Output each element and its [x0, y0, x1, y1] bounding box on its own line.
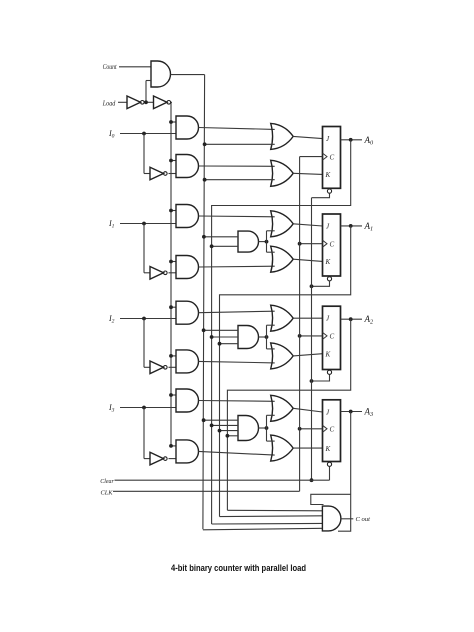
node I3 junction [142, 406, 146, 410]
wire A0 output [341, 139, 363, 141]
svg-text:K: K [325, 258, 331, 266]
clock wedge FF3 [323, 425, 328, 432]
wire J AND out to OR stage0 [199, 128, 275, 130]
wire OR out to K input FF1 [293, 259, 322, 261]
node bus tap stage2 [202, 328, 206, 332]
clear bubble FF2 [327, 370, 331, 374]
wire chain AND input stage3 [227, 435, 238, 437]
node clear riser tap FF1 [310, 284, 314, 288]
node bus tap stage2 [218, 342, 222, 346]
wire inverter I2 output [169, 366, 177, 368]
wire load tap to J AND stage3 [171, 394, 176, 396]
wire inverter I3 output [169, 458, 177, 460]
wire load tap to J AND stage2 [171, 306, 176, 308]
AND gate J load stage1 [176, 205, 199, 228]
AND gate J load stage3 [176, 389, 199, 412]
wire A2 output [341, 318, 363, 320]
wire chain AND input stage3 [220, 430, 239, 432]
wire Clear line [115, 479, 330, 481]
wire into inverter I0 [144, 173, 150, 175]
svg-text:4-bit binary counter with para: 4-bit binary counter with parallel load [171, 563, 306, 573]
node count bus tap J0 [203, 142, 207, 146]
node I2 junction [142, 317, 146, 321]
node chain split stage3 [265, 426, 269, 430]
wire inverter I0 output [169, 173, 177, 175]
inverter I2 [150, 361, 164, 374]
wire load tap to K AND stage1 [171, 261, 176, 263]
wire chain split vertical stage3 [266, 415, 268, 441]
wire into inverter I2 [144, 366, 150, 368]
wire chain AND input stage3 [212, 424, 238, 426]
inverter Load [127, 96, 141, 109]
svg-text:K: K [325, 445, 331, 453]
wire K AND out to OR stage3 [199, 451, 275, 455]
node clear riser joins clear line [310, 478, 314, 482]
node count bus tap K0 [203, 178, 207, 182]
wire J AND out to OR stage2 [199, 311, 275, 313]
inverter I0 [150, 167, 164, 180]
wire load tap to K AND stage2 [171, 355, 176, 357]
AND gate K load stage1 [176, 256, 199, 279]
wire into inverter I1 [144, 272, 150, 274]
wire chain split vertical stage2 [266, 325, 268, 349]
node bus tap stage3 [210, 424, 214, 428]
node clock riser tap FF2 [298, 334, 302, 338]
wire I0 down to inverter [143, 134, 145, 174]
node clear riser tap FF2 [310, 379, 314, 383]
inverter Load buffer [154, 96, 168, 109]
node load bus tap J0 [169, 120, 173, 124]
wire clock riser [299, 157, 301, 492]
svg-text:K: K [325, 351, 331, 359]
node A1 junction [349, 224, 353, 228]
node bus tap stage3 [226, 434, 230, 438]
wire clear bubble FF0 to clear riser [312, 193, 330, 197]
svg-text:C: C [330, 426, 335, 434]
node load bus tap J2 [169, 305, 173, 309]
AND gate count chain stage3 [238, 416, 259, 441]
wire I2 input line [120, 318, 176, 320]
wire chain to OR J stage3 [267, 414, 275, 416]
clock wedge FF0 [323, 153, 328, 160]
wire A1 output [341, 225, 363, 227]
node A3 junction [349, 410, 353, 414]
wire load tap to K AND stage3 [171, 445, 176, 447]
wire I3 input line [120, 407, 176, 409]
JK flip-flop FF2 [323, 306, 341, 369]
node I0 junction [142, 132, 146, 136]
node bus tap stage1 [202, 235, 206, 239]
wire clear bubble FF3 down to clear line [329, 467, 331, 481]
clock wedge FF2 [323, 332, 328, 339]
svg-text:C: C [330, 333, 335, 341]
AND gate count chain stage2 [238, 326, 259, 349]
wire OR out to J input FF0 [293, 136, 322, 138]
svg-text:C: C [330, 241, 335, 249]
AND gate K load stage2 [176, 350, 199, 373]
clear bubble FF1 [327, 277, 331, 281]
wire chain AND input stage2 [220, 343, 239, 345]
wire Count AND output [171, 74, 205, 76]
svg-text:C: C [330, 153, 335, 161]
node bus tap stage3 [218, 429, 222, 433]
node Load' [144, 100, 148, 104]
clear bubble FF0 [327, 189, 331, 193]
wire chain AND out stage3 [259, 427, 267, 429]
wire chain AND input stage3 [204, 419, 238, 421]
wire I1 down to inverter [143, 224, 145, 273]
wire OR out to J input FF3 [293, 408, 322, 412]
node bus tap stage1 [210, 244, 214, 248]
wire chain AND out stage1 [259, 241, 267, 243]
OR gate K stage1 [271, 246, 294, 272]
wire K AND out to OR stage1 [199, 265, 275, 268]
node I1 junction [142, 222, 146, 226]
node clock riser tap FF3 [298, 427, 302, 431]
AND gate K load stage0 [176, 155, 199, 178]
wire A2 feedback bus [227, 319, 350, 510]
node A0 junction [349, 138, 353, 142]
OR gate J stage1 [271, 211, 294, 237]
inverter I1 [150, 267, 164, 280]
wire clear bubble FF2 to clear riser [312, 375, 330, 382]
wire load tap to J AND stage0 [171, 121, 176, 123]
svg-text:K: K [325, 171, 331, 179]
wire into inverter I3 [144, 458, 150, 460]
wire chain split vertical stage1 [266, 231, 268, 252]
wire OR out to J input FF2 [293, 317, 322, 319]
wire chain AND input stage2 [212, 336, 238, 338]
OR gate K stage0 [271, 160, 294, 186]
wire chain to OR K stage2 [267, 348, 275, 350]
wire K AND out to OR stage0 [199, 165, 275, 167]
OR gate J stage2 [271, 305, 294, 331]
svg-text:Load: Load [102, 99, 116, 107]
node load bus tap J3 [169, 393, 173, 397]
wire A1 to carry gate [220, 515, 323, 518]
wire A1 feedback bus [220, 226, 351, 517]
wire OR out to K input FF2 [293, 354, 322, 356]
wire count enable to OR K0 [205, 179, 275, 181]
node load bus tap K1 [169, 260, 173, 264]
wire chain AND input stage1 [212, 245, 238, 247]
AND gate carry out [322, 506, 341, 531]
wire buffered-load vertical bus [170, 102, 172, 446]
OR gate J stage0 [271, 123, 294, 149]
wire A0 feedback bus [212, 140, 351, 524]
wire chain AND out stage2 [259, 336, 267, 338]
OR gate K stage2 [271, 343, 294, 369]
clear bubble FF3 [327, 462, 331, 466]
node load bus tap K3 [169, 444, 173, 448]
wire CLK line [113, 490, 300, 492]
wire count enable to OR J0 [205, 143, 275, 145]
wire C out [341, 518, 353, 520]
node chain split stage1 [265, 240, 269, 244]
OR gate J stage3 [271, 395, 294, 421]
wire clock to C input FF0 [300, 156, 323, 158]
wire clear bubble FF1 to clear riser [312, 281, 330, 286]
wire I2 down to inverter [143, 319, 145, 368]
svg-text:C out: C out [356, 516, 371, 523]
node clock riser tap FF1 [298, 242, 302, 246]
wire load tap to J AND stage1 [171, 210, 176, 212]
wire chain AND input stage2 [204, 329, 238, 331]
wire K AND out to OR stage2 [199, 361, 275, 363]
svg-text:Count: Count [103, 63, 118, 71]
AND gate Count.Load' [151, 61, 171, 87]
wire chain to OR J stage2 [267, 324, 275, 326]
wire chain AND input stage1 [204, 236, 238, 238]
node bus tap stage2 [210, 335, 214, 339]
wire chain to OR J stage1 [267, 230, 275, 232]
AND gate J load stage2 [176, 301, 199, 324]
clock wedge FF1 [323, 240, 328, 247]
wire J AND out to OR stage1 [199, 215, 275, 218]
node chain split stage2 [265, 335, 269, 339]
wire between load inverters [146, 101, 154, 103]
wire inverter I1 output [169, 272, 177, 274]
wire I3 down to inverter [143, 408, 145, 459]
wire OR out to K input FF3 [293, 447, 322, 449]
wire A3 output [341, 411, 363, 413]
node bus tap stage3 [202, 418, 206, 422]
wire clock to C input FF1 [300, 243, 323, 245]
wire chain to OR K stage3 [267, 440, 275, 442]
node load bus tap K2 [169, 354, 173, 358]
svg-text:CLK: CLK [101, 490, 114, 497]
wire A2 to carry gate [227, 509, 322, 512]
wire chain to OR K stage1 [267, 251, 275, 253]
wire lower input of Count AND [146, 80, 151, 82]
wire J AND out to OR stage3 [199, 400, 275, 403]
wire OR out to K input FF0 [293, 173, 322, 174]
wire count enable bottom to carry gate [203, 528, 323, 530]
wire A0 to carry gate [212, 522, 323, 525]
JK flip-flop FF3 [323, 400, 341, 462]
node load bus tap K0 [169, 159, 173, 163]
AND gate count chain stage1 [238, 231, 259, 252]
OR gate K stage3 [271, 435, 294, 461]
JK flip-flop FF0 [323, 127, 341, 189]
JK flip-flop FF1 [323, 214, 341, 276]
wire clock to C input FF3 [300, 428, 323, 430]
wire clear riser [311, 198, 313, 481]
wire clock to C input FF2 [300, 335, 323, 337]
wire Load' up to Count AND [145, 81, 147, 103]
inverter I3 [150, 452, 164, 465]
wire A3 feedback riser to carry gate bottom [338, 412, 351, 532]
node A2 junction [349, 317, 353, 321]
wire I1 input line [120, 223, 176, 225]
wire count-enable vertical bus [203, 75, 205, 530]
svg-text:Clear: Clear [100, 478, 114, 485]
wire OR out to J input FF1 [293, 224, 322, 226]
AND gate J load stage0 [176, 116, 199, 139]
wire Count to AND [119, 66, 151, 68]
wire load buffer output [171, 101, 172, 103]
wire clock branch elbow to carry gate top [311, 494, 351, 504]
wire load tap to K AND stage0 [171, 160, 176, 162]
wire Load to inverter [118, 101, 127, 103]
wire I0 input line [120, 133, 176, 135]
AND gate K load stage3 [176, 440, 199, 463]
node load bus tap J1 [169, 209, 173, 213]
